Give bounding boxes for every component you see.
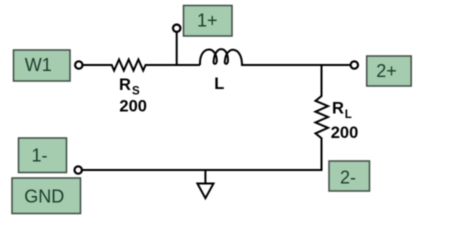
svg-text:R: R: [119, 76, 131, 94]
svg-text:1-: 1-: [31, 146, 47, 166]
svg-text:1+: 1+: [197, 11, 218, 31]
svg-text:S: S: [132, 86, 140, 98]
svg-text:R: R: [332, 100, 344, 118]
svg-text:L: L: [214, 75, 224, 93]
svg-text:2+: 2+: [376, 61, 397, 81]
svg-text:W1: W1: [25, 55, 52, 75]
svg-text:200: 200: [119, 98, 147, 116]
svg-text:200: 200: [331, 124, 359, 142]
svg-text:2-: 2-: [340, 168, 356, 188]
svg-text:L: L: [345, 109, 352, 121]
svg-text:GND: GND: [24, 187, 64, 207]
